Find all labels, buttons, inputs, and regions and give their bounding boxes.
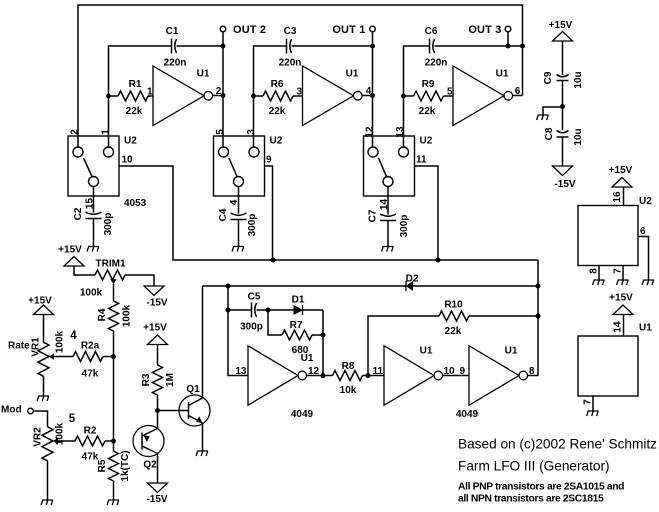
svg-text:U1: U1: [505, 346, 518, 357]
svg-text:220n: 220n: [164, 58, 187, 69]
node OUT3 junction: [506, 44, 511, 49]
potentiometer VR1: [38, 342, 49, 376]
svg-text:300p: 300p: [399, 215, 410, 238]
svg-text:Based on (c)2002 Rene' Schmitz: Based on (c)2002 Rene' Schmitz: [458, 437, 657, 452]
capacitor C3: [286, 39, 288, 54]
wire Q2 emitter to node: [157, 411, 159, 429]
wire D1 segment: [268, 309, 294, 311]
svg-text:47k: 47k: [82, 369, 99, 380]
svg-text:R10: R10: [444, 300, 463, 311]
wire OUT3 terminal stub: [507, 32, 509, 46]
wire D2 row: [203, 285, 407, 287]
node rail-R10 junction: [536, 314, 541, 319]
svg-text:U1: U1: [639, 323, 652, 334]
svg-text:U2: U2: [639, 196, 652, 207]
switch U2b pin circles: [219, 147, 229, 157]
resistor R2a: [73, 352, 103, 362]
svg-text:12: 12: [365, 126, 376, 138]
op-amp U1 inverter C: [453, 66, 504, 126]
svg-text:U1: U1: [420, 346, 433, 357]
resistor R4: [109, 301, 119, 331]
svg-text:U1: U1: [197, 69, 210, 80]
svg-text:D2: D2: [406, 274, 419, 285]
resistor R7: [282, 330, 312, 340]
svg-text:C7: C7: [368, 209, 379, 222]
capacitor C4: [231, 213, 247, 215]
svg-text:5: 5: [215, 129, 226, 135]
wire U2b common to C4: [238, 187, 240, 214]
svg-text:R1: R1: [129, 79, 142, 90]
wire R10 branch: [368, 316, 439, 376]
svg-text:300p: 300p: [247, 214, 258, 237]
wire inverter D output to R8: [307, 375, 333, 377]
svg-text:R7: R7: [290, 320, 303, 331]
wire R7 branch: [268, 310, 282, 335]
wire bus to right rail: [273, 259, 538, 261]
wire OUT2 vertical rail: [222, 32, 224, 147]
node R8-R10 junction: [366, 373, 371, 378]
node R2-R5-Q2 junction: [111, 439, 116, 444]
svg-text:C6: C6: [425, 26, 438, 37]
svg-text:C3: C3: [284, 26, 297, 37]
wire VR1 bottom to ground: [43, 376, 45, 396]
switch U2b arm: [229, 158, 237, 177]
wire D1-R7 right rail: [322, 310, 324, 376]
wire U2a common to C2: [93, 187, 95, 213]
trimmer TRIM1: [95, 270, 125, 280]
svg-text:1k(TC): 1k(TC): [120, 450, 131, 481]
wire inverter F output to rail: [528, 375, 538, 377]
wire Mod to VR2: [33, 411, 47, 427]
wire pin 6 stub to ground: [638, 237, 649, 281]
svg-text:1: 1: [147, 87, 153, 98]
resistor R6: [254, 95, 264, 97]
node bus junction pin 11: [436, 258, 441, 263]
svg-text:3: 3: [246, 129, 257, 135]
svg-text:R2a: R2a: [81, 341, 100, 352]
resistor R8: [333, 371, 363, 381]
node bus junction pins 9-10: [271, 258, 276, 263]
svg-text:-15V: -15V: [146, 494, 167, 505]
svg-text:all NPN transistors are 2SC181: all NPN transistors are 2SC1815: [458, 494, 604, 505]
svg-text:300p: 300p: [103, 213, 114, 236]
wire OUT1 vertical rail: [372, 32, 374, 147]
ground pin 6: [642, 280, 654, 285]
svg-text:U1: U1: [346, 69, 359, 80]
capacitor C9: [557, 75, 569, 77]
svg-text:U2: U2: [124, 136, 137, 147]
analog switch U2b box: [214, 136, 265, 196]
svg-text:10u: 10u: [573, 128, 584, 145]
ground VR1: [37, 396, 49, 401]
svg-text:100k: 100k: [55, 330, 66, 353]
svg-text:300p: 300p: [240, 322, 263, 333]
svg-text:OUT 2: OUT 2: [233, 24, 266, 36]
svg-text:U1: U1: [301, 353, 314, 364]
wire R4 node to R2 node: [113, 357, 115, 442]
capacitor C8: [557, 131, 569, 133]
node OUT1 junction: [370, 44, 375, 49]
svg-text:All PNP transistors are 2SA101: All PNP transistors are 2SA1015 and: [458, 482, 624, 493]
capacitor C6: [429, 39, 431, 54]
resistor R2: [75, 436, 105, 446]
svg-text:6: 6: [640, 226, 646, 237]
resistor R9: [404, 95, 414, 97]
svg-text:22k: 22k: [445, 326, 462, 337]
svg-text:U2: U2: [420, 136, 433, 147]
wire pin 7 U2: [622, 266, 624, 281]
svg-text:-15V: -15V: [146, 298, 167, 309]
svg-text:4049: 4049: [291, 409, 314, 420]
terminal OUT3: [505, 26, 511, 32]
wire pin 8: [598, 266, 600, 281]
node C9-C8 junction: [560, 104, 565, 109]
svg-text:5: 5: [447, 87, 453, 98]
wire inverter A output to OUT2 rail: [213, 95, 223, 97]
node R6 input junction: [251, 94, 256, 99]
svg-text:VR2: VR2: [33, 427, 44, 447]
svg-text:C5: C5: [248, 292, 261, 303]
resistor R3: [153, 365, 163, 395]
ground C9-C8: [537, 115, 549, 120]
wire right rail: [537, 260, 539, 376]
wire U2a pin 10 to bus: [119, 166, 273, 260]
node R1 input junction: [106, 94, 111, 99]
svg-text:22k: 22k: [269, 106, 286, 117]
svg-text:16: 16: [612, 191, 623, 203]
IC U2 power box: [578, 206, 638, 266]
svg-text:Mod: Mod: [1, 405, 22, 416]
resistor R1: [109, 95, 119, 97]
svg-text:R9: R9: [422, 79, 435, 90]
svg-text:7: 7: [613, 268, 624, 274]
switch U2c pin circles: [368, 147, 378, 157]
svg-text:1M: 1M: [165, 373, 176, 387]
resistor R10: [439, 311, 469, 321]
svg-text:4049: 4049: [456, 409, 479, 420]
wire inverter B output to OUT1 rail: [362, 95, 372, 97]
svg-text:D1: D1: [292, 295, 305, 306]
svg-text:Rate: Rate: [8, 341, 30, 352]
svg-text:10k: 10k: [340, 385, 357, 396]
svg-text:R8: R8: [342, 361, 355, 372]
svg-text:C1: C1: [166, 26, 179, 37]
wire TRIM1 right lead: [125, 275, 154, 286]
wire VR2 bottom to ground: [47, 461, 49, 500]
svg-text:4053: 4053: [124, 198, 147, 209]
node R4-R2a junction: [111, 354, 116, 359]
diode D1: [294, 306, 302, 314]
op-amp U1 4049 inverter F: [469, 346, 519, 406]
wire Q1 base: [158, 410, 189, 412]
ground C4: [232, 247, 244, 252]
node C5-R7 junction: [266, 308, 271, 313]
node R7 right junction: [321, 333, 326, 338]
wire section-3 left rail / C6 top wire: [435, 45, 523, 47]
svg-text:4: 4: [70, 330, 77, 342]
svg-text:+15V: +15V: [28, 296, 52, 307]
svg-text:+15V: +15V: [58, 245, 82, 256]
ground pin 7 U2: [617, 280, 629, 285]
power -15V arrow Q2: [148, 483, 168, 493]
svg-text:14: 14: [613, 321, 624, 333]
wire Q2 collector to -15V: [157, 454, 159, 484]
op-amp U1 4049 inverter D: [248, 346, 298, 406]
node R9 input junction: [401, 94, 406, 99]
svg-text:OUT 1: OUT 1: [332, 24, 365, 36]
svg-text:R3: R3: [141, 373, 152, 386]
analog switch U2a box: [68, 136, 119, 196]
svg-text:Farm LFO III (Generator): Farm LFO III (Generator): [458, 459, 610, 474]
transistor Q2: [133, 426, 164, 457]
svg-text:11: 11: [416, 155, 427, 166]
power -15V arrow TRIM1: [144, 286, 164, 296]
node output-feedback junction: [321, 373, 326, 378]
node R3-Q1-Q2 junction: [155, 408, 160, 413]
wire section-2 left rail / C3 top wire: [292, 45, 373, 47]
wire VR1 wiper to R2a: [49, 353, 54, 359]
wire junction to ground: [543, 107, 563, 115]
ground C7: [382, 247, 394, 252]
svg-text:22k: 22k: [126, 106, 143, 117]
svg-text:100k: 100k: [80, 288, 103, 299]
svg-text:8: 8: [589, 268, 600, 274]
svg-text:220n: 220n: [425, 58, 448, 69]
svg-text:11: 11: [373, 366, 384, 377]
wire oscillator input vertical: [228, 286, 248, 376]
svg-text:13: 13: [235, 366, 247, 377]
terminal OUT2: [220, 26, 226, 32]
svg-text:100k: 100k: [122, 304, 133, 327]
wire U2c common to C7: [387, 187, 389, 215]
wire pin 7 U1: [592, 396, 594, 411]
wire pin 16: [623, 187, 625, 206]
svg-text:+15V: +15V: [609, 165, 633, 176]
svg-text:+15V: +15V: [143, 323, 167, 334]
wire OUT3 feedback net (top outer wire to switch U2 pin 2): [78, 5, 523, 147]
wire inverter E output to F: [443, 375, 469, 377]
op-amp U1 inverter A: [153, 66, 204, 126]
capacitor C1: [171, 39, 173, 54]
wire pin 14: [623, 315, 625, 337]
op-amp U1 4049 inverter E: [384, 346, 434, 406]
svg-text:5: 5: [69, 413, 76, 425]
ground R5: [107, 500, 119, 505]
wire Q1 collector riser: [202, 286, 204, 398]
svg-text:Q1: Q1: [186, 384, 200, 395]
node C5 left junction: [226, 308, 231, 313]
wire U2c pin 11 to bus: [415, 166, 439, 260]
svg-text:VR1: VR1: [31, 337, 42, 357]
wire U2b pin 9 to bus: [265, 166, 273, 260]
svg-text:C8: C8: [544, 127, 555, 140]
svg-text:10u: 10u: [573, 71, 584, 88]
svg-text:U2: U2: [270, 136, 283, 147]
wire VR2 wiper to R2: [53, 438, 58, 444]
node rail-D2 junction: [536, 284, 541, 289]
capacitor C7: [380, 214, 396, 216]
svg-text:+15V: +15V: [549, 20, 573, 31]
wire TRIM1 wiper: [110, 279, 116, 284]
svg-text:10: 10: [122, 155, 134, 166]
capacitor C2: [86, 212, 102, 214]
svg-text:2: 2: [70, 129, 81, 135]
svg-text:R2: R2: [84, 426, 97, 437]
ground VR2: [41, 500, 53, 505]
diode D2: [405, 281, 407, 291]
svg-text:C9: C9: [543, 71, 554, 84]
wire inverter C output to right rail: [513, 95, 523, 97]
capacitor C5: [251, 303, 253, 318]
svg-text:-15V: -15V: [554, 179, 575, 190]
svg-text:13: 13: [395, 126, 406, 138]
terminal OUT1: [370, 26, 376, 32]
wire section-1 left rail / C1 top wire: [177, 45, 224, 47]
svg-text:3: 3: [296, 87, 302, 98]
svg-text:OUT 3: OUT 3: [468, 24, 501, 36]
svg-text:9: 9: [266, 155, 272, 166]
svg-text:220n: 220n: [279, 58, 302, 69]
transistor Q1: [179, 395, 210, 426]
svg-text:R6: R6: [271, 79, 284, 90]
svg-text:Q2: Q2: [143, 460, 157, 471]
ground pin 7 U1: [587, 411, 599, 416]
node OUT2 junction: [221, 44, 226, 49]
ground Q1: [196, 451, 208, 456]
op-amp U1 inverter B: [303, 66, 354, 126]
ground C2: [87, 247, 99, 252]
potentiometer VR2: [42, 427, 53, 461]
svg-text:TRIM1: TRIM1: [96, 259, 126, 270]
power -15V arrow C8: [553, 166, 573, 176]
svg-text:U1: U1: [496, 69, 509, 80]
svg-text:R4: R4: [97, 308, 108, 321]
svg-text:+15V: +15V: [609, 293, 633, 304]
svg-text:22k: 22k: [419, 106, 436, 117]
switch U2c arm: [379, 158, 387, 177]
analog switch U2c box: [364, 136, 415, 196]
svg-text:C2: C2: [73, 207, 84, 220]
node oscillator input top junction: [226, 284, 231, 289]
IC U1 power box: [578, 336, 638, 396]
resistor R5: [113, 441, 115, 451]
wire TRIM1 left lead: [74, 266, 95, 275]
switch U2a arm: [84, 158, 93, 177]
svg-text:R5: R5: [97, 459, 108, 472]
ground pin 8: [593, 280, 605, 285]
switch U2a pin circles: [73, 147, 83, 157]
svg-text:7: 7: [583, 399, 594, 405]
svg-text:C4: C4: [218, 208, 229, 221]
wire C5 row: [228, 309, 252, 311]
wire Q1 emitter to ground: [202, 423, 204, 451]
svg-text:1: 1: [101, 129, 112, 135]
